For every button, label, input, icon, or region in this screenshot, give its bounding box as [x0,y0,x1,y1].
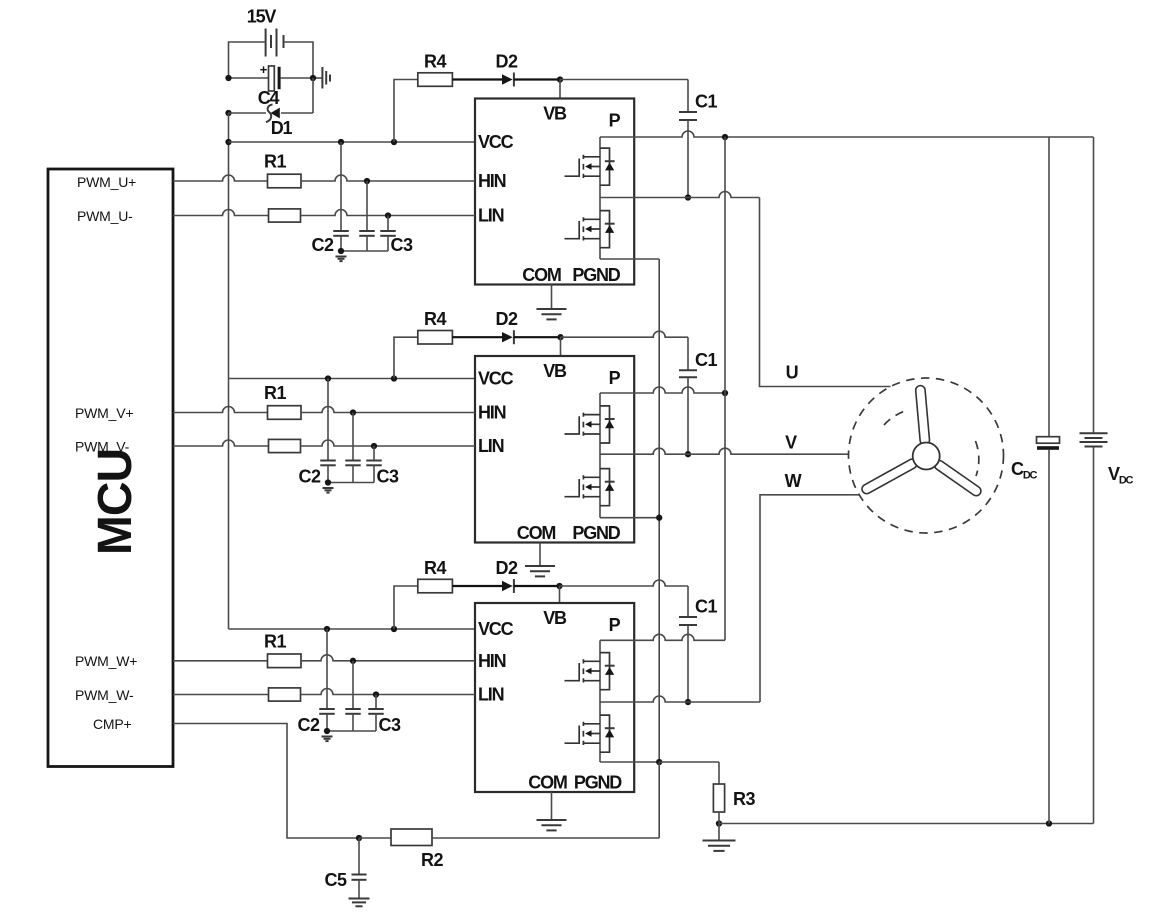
label C1 (driver 2) [695,350,717,370]
wire C2 bottom driver 3 [326,714,328,731]
resistor R1 (driver 1 high side) [268,174,302,188]
capacitor HIN filter cap (driver 2) [345,461,361,466]
pin label HIN driver 3 [478,651,506,671]
label C5 [324,870,346,890]
svg-text:U: U [786,363,798,383]
wire half-bridge rail driver 3 [599,640,601,762]
node VB junction driver 3 [556,583,562,589]
wire PWM- input to R1 driver 2 [173,440,269,446]
svg-text:+: + [260,62,268,77]
ground (COM driver 2) [525,566,555,576]
wire D2 cathode to VB driver 3 [514,585,560,587]
svg-text:HIN: HIN [478,403,506,423]
transistor upper MOSFET (driver 2) [565,406,615,443]
wire LIN net driver 1 [301,210,476,216]
wire mid cap bottom driver 3 [352,714,354,731]
capacitor HIN filter cap (driver 3) [345,709,361,714]
pin label LIN driver 2 [478,436,504,456]
svg-text:D2: D2 [495,52,517,72]
wire LIN net driver 3 [301,689,476,695]
label MCU [89,449,142,555]
svg-text:C5: C5 [324,870,346,890]
ground (15V supply, right) [313,67,330,89]
wire Cdc branch [1048,137,1050,824]
wire P line driver 2 [600,387,725,393]
label Cdc [1011,459,1038,482]
pin label HIN driver 1 [478,171,506,191]
wire C2 bottom driver 1 [340,236,342,251]
label D2 (driver 1) [495,52,517,72]
wire R4 to D2 anode driver 1 [452,78,502,80]
node C1 bottom junction driver 1 [685,194,691,200]
wire HIN net driver 2 [301,407,475,413]
svg-text:VCC: VCC [478,132,514,152]
pin label COM driver 3 [528,773,567,793]
resistor R1 (driver 2 high side) [268,406,302,420]
svg-text:MCU: MCU [89,449,142,555]
wire shunt to R3 [659,762,719,784]
svg-text:PGND: PGND [572,523,620,543]
resistor R2 [391,829,432,846]
wire VCC net driver 3 [229,628,476,630]
pin label PWM_W- [75,687,134,703]
pin label P driver 3 [609,615,621,635]
svg-text:LIN: LIN [478,436,504,456]
svg-text:PWM_W+: PWM_W+ [75,653,137,669]
node P bus junction driver 2 [722,390,728,396]
svg-text:C3: C3 [376,467,398,487]
pin label PWM_V+ [75,405,133,421]
transistor lower MOSFET (driver 2) [565,469,615,506]
wire VCC net driver 1 [229,141,476,143]
svg-text:LIN: LIN [478,206,504,226]
label C3 (driver 2) [376,467,398,487]
svg-text:VB: VB [543,608,567,628]
svg-text:W: W [785,471,802,491]
label R1 (driver 2) [264,383,286,403]
wire COM pin driver 1 [551,285,553,309]
pin label VB driver 1 [543,104,567,124]
wire C3 bottom driver 2 [328,465,374,482]
svg-text:COM: COM [528,773,567,793]
pin label VCC driver 1 [478,132,514,152]
wire phase V output [600,448,849,454]
wire shunt line driver 1 [600,258,659,260]
wire mid cap branch driver 3 [352,661,354,709]
wire P bus driver 1 to DC+ rail [600,131,1094,137]
capacitor C4 (electrolytic) [229,62,314,91]
wire C3 branch driver 3 [375,695,377,710]
label C1 (driver 1) [695,92,717,112]
pin label VB driver 2 [543,361,567,381]
pin label VB driver 3 [543,608,567,628]
pin label COM driver 2 [517,523,556,543]
svg-text:PWM_U+: PWM_U+ [77,174,136,190]
wire shunt line driver 2 [600,517,659,519]
label V [785,433,797,453]
ground (C2/C3 driver 1) [336,257,347,262]
svg-text:R1: R1 [264,631,286,651]
label R2 [421,850,443,870]
wire C1 to phase driver 1 [687,120,689,198]
svg-text:PGND: PGND [574,773,622,793]
label R1 (driver 1) [264,152,286,172]
label U [786,363,798,383]
motor M1 outline [849,378,1004,533]
wire PWM+ input to R1 driver 3 [173,660,268,662]
wire PWM- input to R1 driver 1 [173,210,269,216]
wire C2 bottom driver 2 [327,465,329,482]
pin label P driver 1 [609,111,621,131]
wire D2 cathode to VB driver 1 [514,78,560,80]
wire DC+ vertical bus [724,137,726,640]
svg-text:R2: R2 [421,850,443,870]
transistor lower MOSFET (driver 3) [565,715,615,752]
capacitor HIN filter cap (driver 1) [359,231,375,236]
capacitor C3 (driver 1) [380,231,396,236]
wire VB pin driver 1 [559,80,561,99]
node VB junction driver 1 [557,76,563,82]
pin label VCC driver 3 [478,619,514,639]
svg-text:CDC: CDC [1011,459,1038,482]
wire COM pin driver 3 [551,792,553,820]
wire COM pin driver 2 [539,543,541,566]
diode D2 (driver 2) [502,330,514,344]
node VB junction driver 2 [557,334,563,340]
ground (R3) [703,841,736,851]
svg-text:C2: C2 [311,235,333,255]
svg-text:D2: D2 [495,558,517,578]
svg-text:CMP+: CMP+ [93,716,132,732]
svg-text:LIN: LIN [478,685,504,705]
ground (C2/C3 driver 3) [322,737,333,742]
svg-text:R1: R1 [264,383,286,403]
svg-text:COM: COM [522,265,561,285]
wire PWM- input to R1 driver 3 [173,694,269,696]
wire P line driver 3 [600,634,725,640]
svg-text:D2: D2 [495,309,517,329]
svg-text:R4: R4 [424,52,446,72]
label C4 [258,88,280,108]
resistor R4 (driver 1) [418,73,453,87]
wire +15V vertical rail [228,113,230,629]
pin label P driver 2 [609,368,621,388]
pin label VCC driver 2 [478,369,514,389]
svg-text:C2: C2 [297,715,319,735]
label C3 (driver 3) [378,715,400,735]
label Vdc [1108,464,1134,487]
wire R2 left [359,837,391,839]
wire C5 branch [358,838,360,874]
svg-text:COM: COM [517,523,556,543]
wire C1 to phase driver 2 [687,377,689,454]
pin label LIN driver 1 [478,206,504,226]
node C1 bottom junction driver 2 [685,451,691,457]
wire C5 ground stem [358,880,360,899]
ground (COM driver 1) [537,309,567,319]
label W [785,471,802,491]
node R3 bottom junction [716,820,722,826]
wire HIN net driver 1 [301,175,475,181]
motor fan blade 2 [867,464,913,489]
diode D2 (driver 3) [502,579,514,593]
wire mid cap branch driver 1 [366,181,368,231]
node HIN junction driver 3 [350,658,356,664]
wire VB to C1 driver 2 [561,331,689,370]
node LIN junction driver 2 [371,443,377,449]
wire R4 to D2 anode driver 2 [452,336,502,338]
MCU block U100 [48,169,173,767]
pin label LIN driver 3 [478,685,504,705]
node shunt junction driver 2 [656,515,662,521]
wire mid cap bottom driver 1 [366,236,368,251]
ground (C5) [349,899,370,907]
node VCC net junctions driver 3 [324,626,397,632]
resistor R1 (driver 1 low side) [269,209,301,222]
label R3 [733,789,755,809]
label R4 (driver 1) [424,52,446,72]
svg-text:VDC: VDC [1108,464,1134,487]
svg-text:PGND: PGND [572,265,620,285]
svg-text:P: P [609,615,621,635]
gate driver IC U3 [475,603,634,792]
node HIN junction driver 1 [364,178,370,184]
node C2 ground junction driver 3 [324,728,330,734]
node C1 bottom junction driver 3 [685,699,691,705]
label 15V [247,7,277,27]
wire C3 bottom driver 1 [341,236,388,251]
wire C1 to phase driver 3 [687,625,689,702]
label R4 (driver 2) [424,309,446,329]
battery Vdc [1080,433,1108,446]
wire phase U output [600,192,891,387]
pin label PWM_V- [75,439,130,455]
wire shunt bus [658,259,660,762]
ground (C2/C3 driver 2) [323,488,334,493]
motor fan blade 3 [939,465,976,491]
diode D1 [266,105,280,123]
pin label PGND driver 3 [574,773,622,793]
capacitor C1 (driver 1) [679,112,697,120]
svg-text:PWM_U-: PWM_U- [77,208,133,224]
label R4 (driver 3) [424,558,446,578]
node P bus junction driver 1 [722,134,728,140]
wire R4 riser driver 3 [394,586,418,629]
wire CMP+ net [173,724,360,839]
wire battery top loop [229,42,314,78]
wire half-bridge rail driver 2 [599,393,601,518]
wire half-bridge rail driver 1 [599,137,601,259]
svg-text:C3: C3 [390,235,412,255]
wire D2 cathode to VB driver 2 [514,336,561,338]
resistor R1 (driver 3 high side) [268,654,302,668]
svg-text:C1: C1 [695,350,717,370]
svg-text:PWM_W-: PWM_W- [75,687,134,703]
motor rotation arc upper [884,411,905,425]
capacitor C1 (driver 2) [679,370,697,377]
label C2 (driver 3) [297,715,319,735]
svg-text:VCC: VCC [478,619,514,639]
motor hub [913,443,940,470]
resistor R4 (driver 2) [418,331,453,345]
motor rotation arc right [976,441,979,476]
capacitor C2 (driver 3) [319,709,335,714]
gate driver IC U2 [475,356,634,543]
wire R3 ground stem [718,824,720,841]
svg-text:HIN: HIN [478,171,506,191]
node VCC net junctions driver 1 [338,139,397,145]
wire PWM+ input to R1 driver 2 [173,407,268,413]
svg-text:R4: R4 [424,309,446,329]
wire VB to C1 driver 3 [560,580,689,617]
capacitor C3 (driver 3) [368,709,384,714]
wire VCC net driver 2 [229,378,476,380]
pin label PWM_W+ [75,653,137,669]
node LIN junction driver 3 [373,691,379,697]
svg-text:PWM_V+: PWM_V+ [75,405,133,421]
svg-text:VB: VB [543,361,567,381]
label R1 (driver 3) [264,631,286,651]
wire mid cap bottom driver 2 [352,465,354,482]
transistor lower MOSFET (driver 1) [565,211,615,248]
battery 15V supply [266,29,284,57]
wire C2 branch driver 1 [340,142,342,231]
wire VB pin driver 2 [560,337,562,356]
wire R3 bottom rail [719,812,1094,824]
pin label PWM_U- [77,208,133,224]
wire C3 branch driver 2 [373,446,375,461]
capacitor C2 (driver 2) [320,461,336,466]
resistor R1 (driver 3 low side) [269,688,301,701]
svg-text:P: P [609,368,621,388]
svg-text:VCC: VCC [478,369,514,389]
wire C2 branch driver 2 [327,379,329,461]
capacitor C2 (driver 1) [333,231,349,236]
capacitor Cdc [1037,437,1060,450]
node shunt common junction [656,759,662,765]
wire C3 branch driver 1 [387,216,389,232]
pin label PWM_U+ [77,174,136,190]
label C1 (driver 3) [695,597,717,617]
pin label HIN driver 2 [478,403,506,423]
label D1 [271,118,293,138]
svg-text:C1: C1 [695,597,717,617]
svg-text:R1: R1 [264,152,286,172]
pin label PGND driver 2 [572,523,620,543]
motor fan blade 1 [920,390,924,440]
node LIN junction driver 1 [385,212,391,218]
resistor R1 (driver 2 low side) [269,439,301,452]
wire R4 to D2 anode driver 3 [452,585,502,587]
pin label CMP+ [93,716,132,732]
diode D2 (driver 1) [502,73,514,87]
gate driver IC U1 [475,99,634,285]
node HIN junction driver 2 [350,409,356,415]
svg-text:C3: C3 [378,715,400,735]
node C2 ground junction driver 2 [325,479,331,485]
node VCC net junctions driver 2 [325,375,397,381]
wire R2 to shunt [432,762,659,838]
pin label COM driver 1 [522,265,561,285]
svg-text:D1: D1 [271,118,293,138]
node battery left junctions [225,75,316,116]
transistor upper MOSFET (driver 1) [565,148,615,185]
wire mid cap branch driver 2 [352,413,354,461]
label C2 (driver 2) [298,467,320,487]
wire VB pin driver 3 [559,586,561,603]
transistor upper MOSFET (driver 3) [565,653,615,690]
svg-text:VB: VB [543,104,567,124]
label D2 (driver 2) [495,309,517,329]
wire D1 net [229,78,314,113]
wire R4 riser driver 2 [394,337,418,378]
wire Vdc branch [1093,137,1095,824]
wire HIN net driver 3 [301,655,475,661]
capacitor C5 [352,875,367,880]
svg-text:R3: R3 [733,789,755,809]
wire C3 bottom driver 3 [327,714,376,731]
resistor R4 (driver 3) [418,579,453,593]
svg-text:15V: 15V [247,7,277,27]
label C2 (driver 1) [311,235,333,255]
capacitor C3 (driver 2) [366,461,382,466]
svg-text:R4: R4 [424,558,446,578]
capacitor C1 (driver 3) [679,617,697,625]
ground (COM driver 3) [537,820,567,830]
svg-text:P: P [609,111,621,131]
node DC- junction at Cdc [1046,820,1052,826]
label D2 (driver 3) [495,558,517,578]
wire C2 branch driver 3 [326,629,328,709]
wire R4 riser driver 1 [394,80,418,143]
node C2 ground junction driver 1 [338,248,344,254]
svg-text:HIN: HIN [478,651,506,671]
node +15V rail to VCC1 [225,139,231,145]
svg-text:C2: C2 [298,467,320,487]
svg-text:PWM_V-: PWM_V- [75,439,130,455]
wire VB to C1 driver 1 [560,80,688,113]
label C3 (driver 1) [390,235,412,255]
svg-text:V: V [785,433,797,453]
resistor R3 [713,784,724,812]
node C5 junction [356,835,362,841]
wire LIN net driver 2 [301,440,476,446]
svg-text:C1: C1 [695,92,717,112]
wire PWM+ input to R1 driver 1 [173,175,268,181]
pin label PGND driver 1 [572,265,620,285]
wire phase W output [600,495,859,702]
wire shunt line driver 3 [600,761,659,763]
